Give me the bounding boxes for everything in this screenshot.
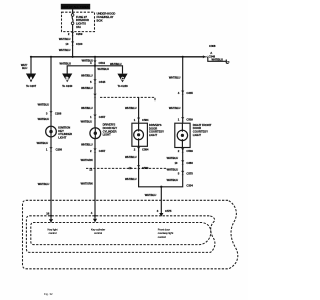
svg-text:12: 12 [128, 166, 131, 170]
svg-text:WHT/BLU: WHT/BLU [81, 106, 93, 110]
svg-text:3: 3 [46, 112, 48, 116]
svg-text:2: 2 [134, 148, 136, 152]
svg-text:C584: C584 [142, 148, 149, 152]
svg-text:BOX: BOX [97, 19, 103, 23]
triangle B to C240 [62, 74, 72, 83]
pin 12 connector C580 [137, 165, 140, 170]
driver door key cylinder column wire (upper) [94, 57, 96, 128]
terminal arrow key cylinder control [93, 219, 97, 223]
driver's door courtesy light [132, 123, 148, 146]
svg-text:WHT/BLU: WHT/BLU [38, 102, 50, 106]
ground distribution outer box (dashed, wavy right) [23, 200, 238, 268]
svg-text:WHT/BLU: WHT/BLU [38, 182, 50, 186]
svg-text:WHT/BLU: WHT/BLU [81, 74, 93, 78]
svg-text:C334: C334 [186, 184, 193, 188]
svg-text:C509: C509 [186, 118, 193, 122]
svg-text:C580: C580 [142, 166, 149, 170]
driver courtesy light lower wire [139, 146, 162, 187]
pin 3 connector C208 [49, 111, 52, 116]
svg-text:10: 10 [65, 42, 68, 46]
svg-text:1: 1 [90, 115, 92, 119]
svg-text:C308: C308 [209, 44, 216, 48]
inline connector [93, 94, 96, 99]
pin 1 connector C584 [137, 118, 140, 123]
under-hood fuse/relay box (dashed) [62, 12, 95, 31]
pin 1 connector C208 [49, 147, 52, 152]
svg-text:2: 2 [68, 32, 70, 36]
bus end inline connector C308 pin A [203, 55, 205, 58]
svg-text:To C246: To C246 [117, 84, 128, 88]
svg-text:C544: C544 [99, 61, 106, 65]
svg-text:C208: C208 [56, 148, 63, 152]
node on key cylinder wire [94, 65, 96, 67]
svg-text:C208: C208 [55, 112, 62, 116]
pin 2 connector C457 [93, 149, 96, 154]
wire to right edge connector [208, 57, 227, 62]
svg-text:2: 2 [90, 149, 92, 153]
wire bus drop to triangle A [30, 57, 32, 74]
svg-text:WHT/GRN: WHT/GRN [81, 181, 93, 185]
svg-text:WHT/BLU: WHT/BLU [59, 48, 71, 52]
svg-text:C100: C100 [76, 42, 83, 46]
svg-text:WHT/BLU: WHT/BLU [81, 120, 93, 124]
triangle C to C246 [117, 74, 127, 83]
svg-text:C545: C545 [99, 80, 106, 84]
svg-text:LIGHT: LIGHT [149, 133, 157, 137]
svg-text:control: control [158, 235, 166, 239]
ignition light column wire (upper) [50, 57, 52, 127]
svg-text:1: 1 [134, 118, 136, 122]
driver door boundary (dashed) [100, 97, 155, 101]
right front door courtesy light [175, 123, 190, 147]
svg-text:WHT/BLU: WHT/BLU [167, 168, 179, 172]
pin 10 connector C383 [181, 160, 184, 165]
svg-text:WHT/BLU: WHT/BLU [145, 193, 157, 197]
svg-text:WHT/GRN: WHT/GRN [81, 158, 93, 162]
svg-text:WHT/BLU: WHT/BLU [38, 117, 50, 121]
pin 2 connector C509 [181, 148, 184, 153]
svg-text:C509: C509 [186, 149, 193, 153]
svg-text:HOT AT ALL TIMES: HOT AT ALL TIMES [62, 5, 89, 9]
svg-text:WHT/BLU: WHT/BLU [212, 57, 224, 61]
merged ground wire junction [160, 186, 162, 188]
svg-text:C209: C209 [76, 32, 83, 36]
branch wire to triangles B and C [67, 66, 122, 74]
svg-text:control: control [49, 231, 57, 235]
svg-text:C584: C584 [142, 118, 149, 122]
wire fuse box to bus [72, 32, 74, 57]
svg-text:WHT/BLU: WHT/BLU [37, 141, 49, 145]
svg-text:WHT/BLU: WHT/BLU [169, 106, 181, 110]
svg-text:C383: C383 [186, 161, 193, 165]
terminal arrow front door courtesy light control [159, 213, 163, 217]
svg-text:WHT/BLU: WHT/BLU [81, 86, 93, 90]
right courtesy light lower wire [161, 148, 182, 187]
svg-text:3: 3 [157, 209, 159, 213]
header HOT AT ALL TIMES [61, 4, 90, 10]
svg-text:LIGHT: LIGHT [58, 136, 66, 140]
svg-text:C575: C575 [165, 209, 172, 213]
svg-text:C457: C457 [99, 149, 106, 153]
svg-text:1: 1 [46, 148, 48, 152]
door boundary bottom dashed line [86, 167, 166, 169]
svg-text:control: control [94, 231, 102, 235]
svg-text:BLU: BLU [22, 66, 27, 70]
svg-text:4: 4 [91, 211, 93, 215]
svg-text:WHT/BLU: WHT/BLU [167, 156, 179, 160]
inline connector C100 pin 10 [71, 42, 74, 47]
pin 4 connector C544 [93, 61, 96, 66]
pin 5 connector C545 [93, 79, 96, 84]
pin 2 connector C584 [137, 147, 140, 152]
fuse F27 symbol [72, 9, 74, 13]
svg-text:C: C [121, 76, 124, 81]
ground distribution inner box (dashed) [31, 223, 211, 245]
ignition key cylinder light bulb [46, 126, 57, 137]
pin 4 connector C345 [181, 91, 184, 96]
terminal arrow key light control [49, 219, 53, 223]
svg-text:WHT/BLU: WHT/BLU [169, 75, 181, 79]
svg-text:WHT/BLU: WHT/BLU [167, 178, 179, 182]
svg-text:10: 10 [174, 161, 177, 165]
svg-text:C345: C345 [186, 91, 193, 95]
driver courtesy light feed wire [138, 97, 140, 123]
svg-text:2: 2 [178, 149, 180, 153]
svg-text:A: A [29, 76, 32, 81]
svg-text:LIGHT: LIGHT [193, 133, 201, 137]
svg-text:WHT/BLU: WHT/BLU [59, 37, 71, 41]
svg-text:WHT/BLU: WHT/BLU [125, 177, 137, 181]
svg-text:To C240: To C240 [62, 84, 73, 88]
svg-text:5: 5 [178, 171, 180, 175]
driver door key cylinder light bulb [90, 128, 101, 139]
svg-text:WHT/BLU: WHT/BLU [60, 61, 72, 65]
pin 1 connector C509 [181, 117, 184, 122]
right courtesy light feed wire [182, 57, 184, 123]
driver door key cylinder column wire (lower) [94, 139, 96, 219]
end connector half [226, 60, 228, 64]
triangle A to C207 [26, 74, 36, 83]
svg-text:1: 1 [178, 118, 180, 122]
svg-text:WHT/BLU: WHT/BLU [125, 155, 137, 159]
svg-text:C575: C575 [186, 171, 193, 175]
pin 2 connector C209 [71, 32, 74, 37]
svg-text:WHT/BLU: WHT/BLU [125, 106, 137, 110]
bus wire [31, 56, 206, 58]
svg-text:C457: C457 [99, 115, 106, 119]
svg-text:16: 16 [46, 212, 49, 216]
pin 1 connector C457 [93, 115, 96, 120]
svg-text:To C207: To C207 [26, 84, 37, 88]
junction dots [30, 56, 32, 58]
svg-text:4: 4 [178, 91, 180, 95]
svg-text:WHT/BLU: WHT/BLU [110, 62, 122, 66]
svg-text:LIGHT: LIGHT [103, 133, 111, 137]
pin 5 connector C575 [181, 171, 184, 176]
svg-text:Fig. 32: Fig. 32 [44, 292, 53, 296]
svg-text:WHT/BLU: WHT/BLU [81, 142, 93, 146]
svg-text:5: 5 [90, 80, 92, 84]
svg-text:B: B [66, 76, 69, 81]
ground distribution middle box (dashed, wavy right) [26, 216, 215, 253]
ignition light column wire (lower) [50, 137, 52, 219]
svg-text:WHT/BLU: WHT/BLU [98, 67, 110, 71]
